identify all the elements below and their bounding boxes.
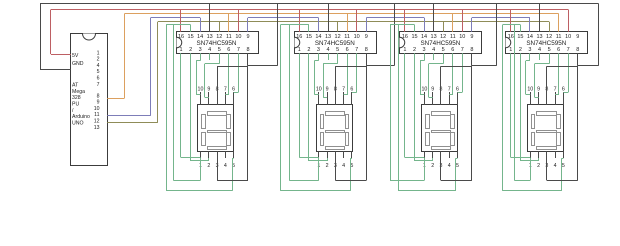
svg-text:5: 5 bbox=[218, 47, 221, 53]
svg-text:6: 6 bbox=[227, 47, 230, 53]
svg-text:4: 4 bbox=[538, 47, 541, 53]
svg-text:15: 15 bbox=[306, 34, 312, 40]
svg-text:10: 10 bbox=[527, 86, 533, 92]
svg-text:2: 2 bbox=[97, 57, 100, 63]
svg-text:2: 2 bbox=[307, 47, 310, 53]
svg-text:2: 2 bbox=[326, 163, 329, 169]
svg-text:9: 9 bbox=[326, 86, 329, 92]
svg-text:2: 2 bbox=[207, 163, 210, 169]
svg-text:8: 8 bbox=[440, 86, 443, 92]
svg-text:12: 12 bbox=[335, 34, 341, 40]
svg-text:SN74HC595N: SN74HC595N bbox=[315, 40, 355, 47]
svg-text:16: 16 bbox=[402, 34, 408, 40]
svg-text:6: 6 bbox=[562, 86, 565, 92]
svg-text:4: 4 bbox=[326, 47, 329, 53]
svg-text:1: 1 bbox=[97, 50, 100, 56]
svg-text:9: 9 bbox=[431, 86, 434, 92]
svg-text:1: 1 bbox=[403, 47, 406, 53]
svg-text:9: 9 bbox=[576, 34, 579, 40]
svg-text:13: 13 bbox=[207, 34, 213, 40]
svg-text:9: 9 bbox=[365, 34, 368, 40]
svg-text:5V: 5V bbox=[72, 53, 79, 59]
svg-text:11: 11 bbox=[450, 34, 456, 40]
svg-text:7: 7 bbox=[554, 86, 557, 92]
svg-text:9: 9 bbox=[97, 100, 100, 106]
svg-text:15: 15 bbox=[411, 34, 417, 40]
svg-text:5: 5 bbox=[336, 47, 339, 53]
svg-text:SN74HC595N: SN74HC595N bbox=[197, 40, 237, 47]
svg-text:UNO: UNO bbox=[72, 121, 84, 127]
svg-text:13: 13 bbox=[325, 34, 331, 40]
svg-text:8: 8 bbox=[470, 47, 473, 53]
svg-text:6: 6 bbox=[456, 86, 459, 92]
svg-text:9: 9 bbox=[207, 86, 210, 92]
svg-text:4: 4 bbox=[448, 163, 451, 169]
svg-text:7: 7 bbox=[342, 86, 345, 92]
svg-text:2: 2 bbox=[519, 47, 522, 53]
svg-text:7: 7 bbox=[567, 47, 570, 53]
svg-text:16: 16 bbox=[178, 34, 184, 40]
svg-text:3: 3 bbox=[199, 47, 202, 53]
svg-text:3: 3 bbox=[422, 47, 425, 53]
svg-text:13: 13 bbox=[431, 34, 437, 40]
svg-text:Arduino: Arduino bbox=[72, 114, 90, 120]
svg-text:11: 11 bbox=[226, 34, 232, 40]
svg-text:7: 7 bbox=[97, 82, 100, 88]
svg-text:5: 5 bbox=[442, 47, 445, 53]
svg-text:3: 3 bbox=[440, 163, 443, 169]
svg-text:SN74HC595N: SN74HC595N bbox=[526, 40, 566, 47]
svg-text:5: 5 bbox=[97, 69, 100, 75]
svg-text:14: 14 bbox=[527, 34, 533, 40]
svg-text:7: 7 bbox=[355, 47, 358, 53]
svg-text:15: 15 bbox=[188, 34, 194, 40]
svg-text:15: 15 bbox=[517, 34, 523, 40]
svg-text:7: 7 bbox=[224, 86, 227, 92]
svg-text:2: 2 bbox=[537, 163, 540, 169]
svg-text:6: 6 bbox=[350, 86, 353, 92]
svg-text:6: 6 bbox=[97, 76, 100, 82]
svg-text:1: 1 bbox=[298, 47, 301, 53]
svg-text:10: 10 bbox=[354, 34, 360, 40]
svg-text:4: 4 bbox=[97, 63, 100, 69]
svg-text:8: 8 bbox=[576, 47, 579, 53]
svg-text:16: 16 bbox=[296, 34, 302, 40]
svg-text:11: 11 bbox=[94, 112, 99, 118]
svg-text:12: 12 bbox=[440, 34, 446, 40]
svg-text:4: 4 bbox=[342, 163, 345, 169]
svg-text:7: 7 bbox=[237, 47, 240, 53]
svg-text:10: 10 bbox=[198, 86, 204, 92]
svg-text:5: 5 bbox=[548, 47, 551, 53]
svg-text:2: 2 bbox=[413, 47, 416, 53]
svg-text:12: 12 bbox=[216, 34, 222, 40]
svg-text:6: 6 bbox=[557, 47, 560, 53]
svg-text:11: 11 bbox=[344, 34, 350, 40]
svg-text:6: 6 bbox=[232, 86, 235, 92]
svg-text:SN74HC595N: SN74HC595N bbox=[420, 40, 460, 47]
svg-text:8: 8 bbox=[97, 93, 100, 99]
svg-text:5: 5 bbox=[456, 163, 459, 169]
svg-text:3: 3 bbox=[528, 47, 531, 53]
svg-text:7: 7 bbox=[448, 86, 451, 92]
svg-text:PU: PU bbox=[72, 102, 79, 108]
svg-text:13: 13 bbox=[536, 34, 542, 40]
svg-text:GND: GND bbox=[72, 61, 84, 67]
svg-text:7: 7 bbox=[461, 47, 464, 53]
svg-text:AT: AT bbox=[72, 83, 79, 89]
svg-text:11: 11 bbox=[556, 34, 562, 40]
svg-text:10: 10 bbox=[235, 34, 241, 40]
svg-text:4: 4 bbox=[224, 163, 227, 169]
svg-text:9: 9 bbox=[246, 34, 249, 40]
svg-text:1: 1 bbox=[179, 47, 182, 53]
svg-text:13: 13 bbox=[94, 125, 100, 131]
svg-text:9: 9 bbox=[537, 86, 540, 92]
svg-text:3: 3 bbox=[317, 47, 320, 53]
svg-text:4: 4 bbox=[208, 47, 211, 53]
svg-text:6: 6 bbox=[346, 47, 349, 53]
svg-text:10: 10 bbox=[421, 86, 427, 92]
svg-text:5: 5 bbox=[562, 163, 565, 169]
svg-text:8: 8 bbox=[365, 47, 368, 53]
svg-text:2: 2 bbox=[431, 163, 434, 169]
svg-text:2: 2 bbox=[189, 47, 192, 53]
svg-text:16: 16 bbox=[508, 34, 514, 40]
svg-text:1: 1 bbox=[509, 47, 512, 53]
svg-text:10: 10 bbox=[565, 34, 571, 40]
svg-text:12: 12 bbox=[94, 119, 100, 125]
svg-text:14: 14 bbox=[197, 34, 203, 40]
svg-text:8: 8 bbox=[246, 47, 249, 53]
svg-text:Mega: Mega bbox=[72, 89, 85, 95]
svg-text:6: 6 bbox=[451, 47, 454, 53]
svg-text:12: 12 bbox=[546, 34, 552, 40]
svg-text:4: 4 bbox=[554, 163, 557, 169]
svg-text:10: 10 bbox=[94, 106, 100, 112]
svg-text:14: 14 bbox=[315, 34, 321, 40]
svg-text:4: 4 bbox=[432, 47, 435, 53]
svg-text:10: 10 bbox=[316, 86, 322, 92]
svg-text:10: 10 bbox=[459, 34, 465, 40]
svg-text:328: 328 bbox=[72, 95, 81, 101]
svg-text:14: 14 bbox=[421, 34, 427, 40]
svg-text:9: 9 bbox=[470, 34, 473, 40]
